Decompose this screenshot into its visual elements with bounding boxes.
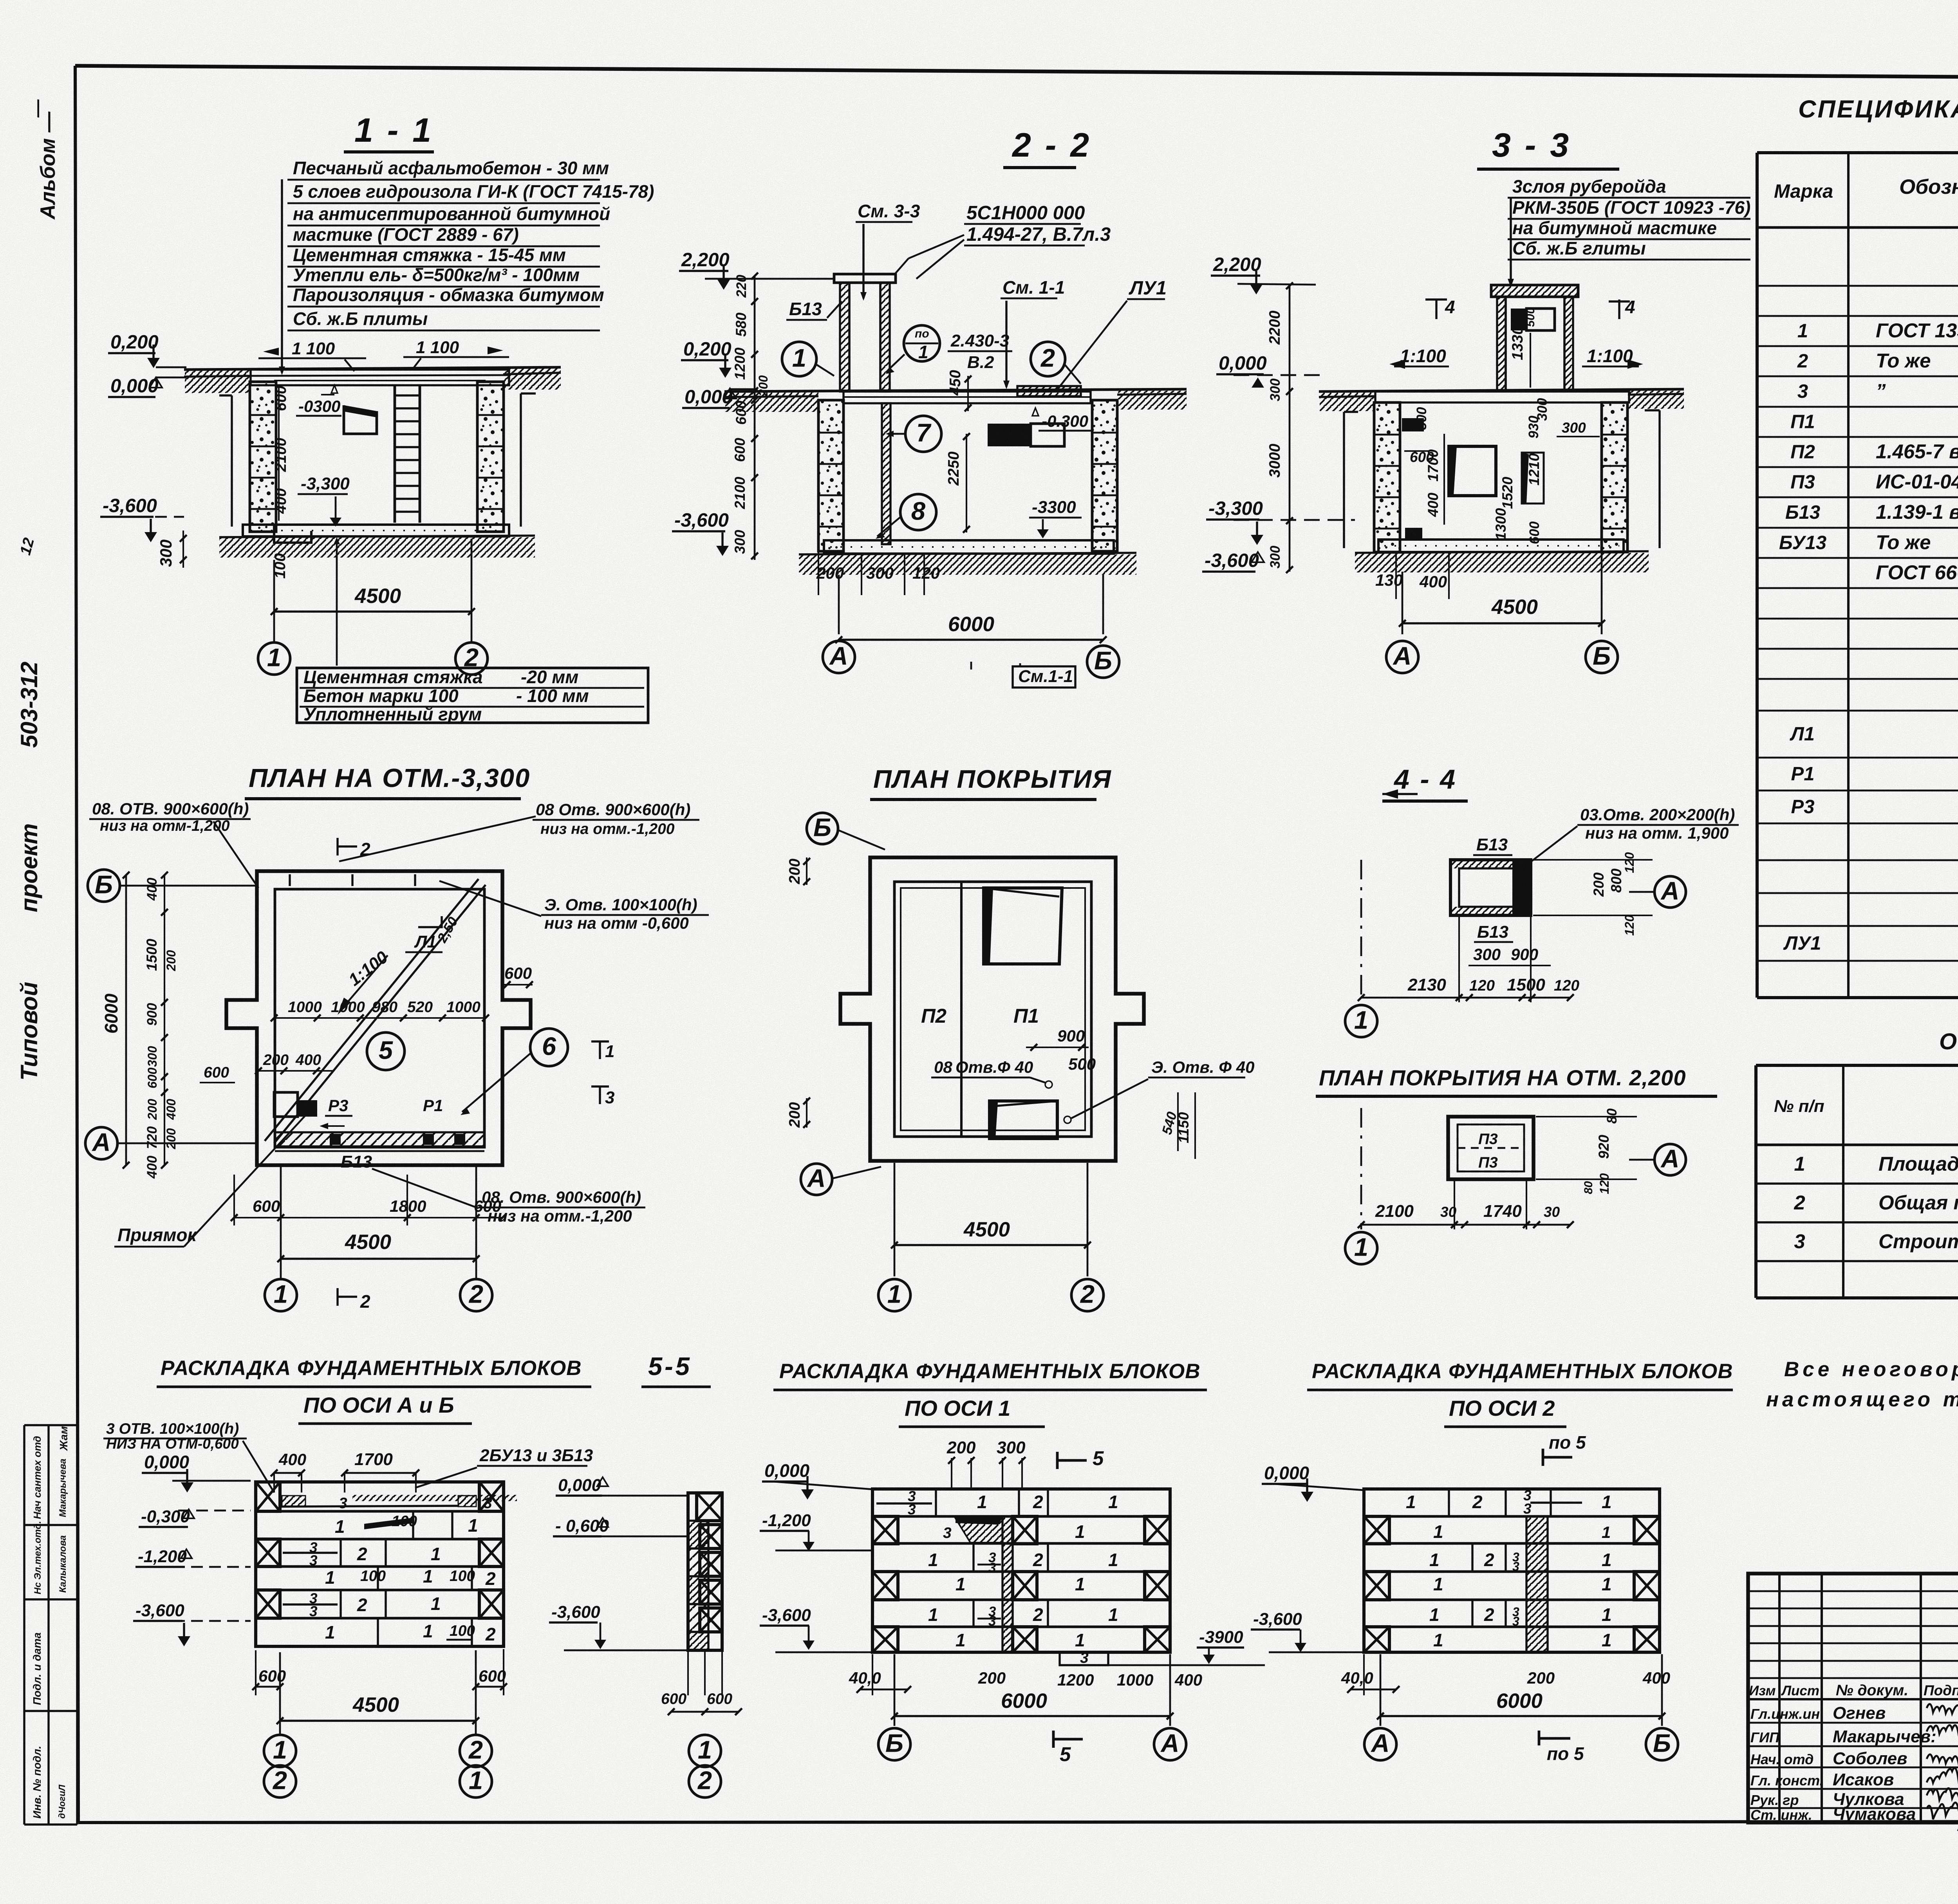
axis1 row1 — [935, 1489, 937, 1516]
interior bottom details: pit and frames — [298, 1100, 317, 1117]
left margin stamp table — [23, 1425, 25, 1825]
axis circles left of covering plan — [807, 813, 838, 844]
opening bottom (dark wedge) — [990, 1101, 1057, 1139]
axis1 row3 — [972, 1543, 974, 1572]
axis circles axis2 — [1364, 1728, 1396, 1760]
axis2 row1 — [1448, 1489, 1450, 1516]
wall openings dashes top — [289, 874, 291, 886]
bottom dimension 6000 — [838, 575, 840, 634]
leader from notes — [1510, 198, 1512, 285]
5-5 bottom dims — [687, 1651, 689, 1695]
5-5 block column — [688, 1493, 722, 1650]
plan inner wall line — [275, 889, 484, 1147]
main indicators table — [1756, 1064, 1958, 1067]
axis circle A — [823, 641, 855, 673]
bottom dimension 4500 — [273, 560, 275, 641]
circled 5 — [367, 1032, 405, 1070]
middle hatched column axis2 — [1526, 1516, 1548, 1652]
axis circle A (3-3) — [1386, 641, 1418, 673]
block wall axis 1 — [872, 1489, 1170, 1652]
right dims 4-4 — [1533, 859, 1653, 861]
block wall axis 2 — [1364, 1489, 1660, 1652]
interior details 3-3 — [1402, 418, 1424, 431]
partition wall below chimney — [882, 403, 890, 544]
spec table grid — [1757, 151, 1958, 154]
axis circle 1 — [258, 642, 290, 675]
inner dashed rect — [901, 888, 1085, 1130]
left pit wall 2-2 — [818, 400, 844, 551]
row 5 X|3/3|2|1|X — [256, 1590, 280, 1618]
header row line — [1748, 1698, 1958, 1700]
floor slab — [243, 525, 509, 536]
chimney interior detail — [1511, 309, 1526, 330]
circle mark po-1 — [904, 325, 940, 361]
drawing frame border — [75, 66, 1958, 80]
axis1 row6 — [872, 1627, 898, 1652]
axis circle 2 (plan) — [460, 1279, 492, 1311]
axis circle A 4-4 — [1655, 876, 1686, 908]
ground hatch left of pit — [185, 370, 250, 393]
plan outline outer — [226, 871, 531, 1165]
title block outer — [1748, 1574, 1958, 1823]
dim chain interior 1000 1000 980 520 1000 — [274, 1017, 486, 1019]
axis circle B left — [88, 870, 120, 902]
axis circle 1 4-4 — [1345, 1005, 1377, 1037]
section mark 5 top — [1056, 1452, 1059, 1469]
channel with hatch (B13) — [275, 1132, 484, 1146]
row 2 blocks 1|1 — [412, 1511, 414, 1539]
axis2 row2 — [1364, 1516, 1389, 1544]
slab divider line — [960, 882, 963, 1137]
circle mark 7 — [905, 416, 941, 452]
dashed axis line — [1360, 1108, 1362, 1229]
axis1 row4 — [872, 1572, 898, 1600]
axis circle 2 — [455, 642, 488, 675]
right opening 3-3 — [1522, 453, 1544, 504]
floor construction notes box — [297, 668, 648, 723]
axis2 row5 — [1471, 1600, 1473, 1627]
axis circle B (3-3) — [1586, 641, 1618, 673]
step down notch — [1060, 1652, 1108, 1665]
axis circles A-B bottom — [264, 1735, 296, 1767]
section mark 5 bottom — [1052, 1731, 1055, 1748]
left pit wall 3-3 — [1374, 402, 1400, 552]
opening top (dark wedge) — [984, 888, 1062, 964]
bottom dim 4500 (covering plan) — [894, 1163, 896, 1276]
dashed axis line 4-4 — [1360, 860, 1362, 1002]
title block left columns — [1778, 1574, 1781, 1823]
small squares P3 P1 anchors — [330, 1134, 341, 1145]
floor slab 2-2 — [824, 540, 1114, 554]
axis circle A left — [85, 1127, 117, 1159]
roof slab 3-3 — [1375, 392, 1629, 402]
pit bottom hatch 3-3 — [1355, 553, 1649, 572]
axis circle 1 (plan) — [265, 1279, 297, 1311]
circled 6 — [530, 1029, 568, 1066]
4-4 box — [1450, 860, 1531, 915]
po 5 mark top — [1542, 1449, 1544, 1466]
chimney 3-3 — [1491, 285, 1578, 297]
big opening — [1449, 446, 1496, 496]
right pit wall 3-3 — [1602, 402, 1627, 552]
chimney shaft 2-2 — [834, 274, 896, 283]
interior ladder — [394, 386, 396, 523]
ground line 2-2 — [724, 389, 1187, 392]
row 4 blocks 1|1|2 — [377, 1567, 379, 1590]
axis1 row2 — [872, 1516, 898, 1544]
small covering box — [1448, 1117, 1534, 1179]
middle hatched column — [1002, 1516, 1013, 1652]
roof slab between walls — [844, 392, 1091, 403]
axis circle A 2.200 — [1655, 1144, 1686, 1175]
axis circle B — [1087, 646, 1119, 678]
axis2 row4 — [1364, 1572, 1389, 1600]
ground hatch right of pit — [504, 368, 561, 390]
axis circle 2 (covering) — [1071, 1279, 1104, 1311]
line down to plan — [1019, 663, 1021, 666]
Sm 1-1 label above covering plan — [1013, 666, 1075, 688]
axis2 row6 — [1364, 1627, 1389, 1652]
roof slab of chamber — [251, 370, 509, 385]
left dimension chains — [125, 875, 127, 1165]
axis circle 1 2.200 — [1345, 1232, 1377, 1264]
pit bottom hatch — [219, 537, 535, 558]
hatched lid detail LU1 — [1017, 386, 1081, 396]
section marks 4 — [1425, 298, 1447, 300]
covering plan outline — [840, 857, 1144, 1161]
leader line from notes to roof — [281, 179, 283, 373]
axis2 row3 — [1471, 1543, 1473, 1572]
circle mark 1 — [782, 342, 816, 376]
po5 mark bottom — [1539, 1737, 1570, 1740]
axis circles axis1 — [878, 1728, 910, 1760]
row 3 X|3/3|2|1|X — [256, 1539, 280, 1567]
bottom dimension 4500 (3-3) — [1402, 572, 1403, 634]
vertical dim chain 3-3 — [1289, 286, 1291, 572]
section mark 2 bottom — [336, 1288, 338, 1306]
niche detail 2-2 — [988, 424, 1031, 446]
title block upper small rows — [1748, 1590, 1958, 1592]
left wall (concrete blocks) — [250, 382, 276, 532]
circle mark 2 — [1031, 342, 1065, 376]
excavation lines 3-3 — [1343, 412, 1345, 548]
section mark 2 top — [336, 838, 338, 855]
floor slab 3-3 — [1378, 540, 1624, 552]
section marks 1 and 3 right — [591, 1040, 609, 1042]
right pit wall 2-2 — [1092, 400, 1117, 551]
right wall (concrete blocks) — [477, 382, 504, 532]
axis circle 1 (covering) — [878, 1279, 910, 1311]
vertical dim chain 2-2 — [754, 276, 756, 560]
excavation boundary lines — [231, 395, 233, 527]
axis1 row5 — [972, 1600, 974, 1627]
axis circles 5-5 — [689, 1735, 721, 1767]
leader to lower notes — [336, 540, 338, 666]
circle mark 8 — [900, 494, 936, 530]
leaders to chimney — [909, 235, 964, 258]
pit bottom hatch 2-2 — [799, 554, 1136, 575]
right dims 2.200 plan — [1536, 1116, 1637, 1117]
row 6 blocks 1|1|100|2 — [377, 1618, 379, 1646]
ground line 3-3 — [1319, 389, 1684, 392]
interior niche detail — [344, 405, 377, 434]
ground surface lines — [184, 367, 561, 370]
block wall A-B — [256, 1482, 504, 1646]
ladder diagonal — [265, 879, 479, 1141]
